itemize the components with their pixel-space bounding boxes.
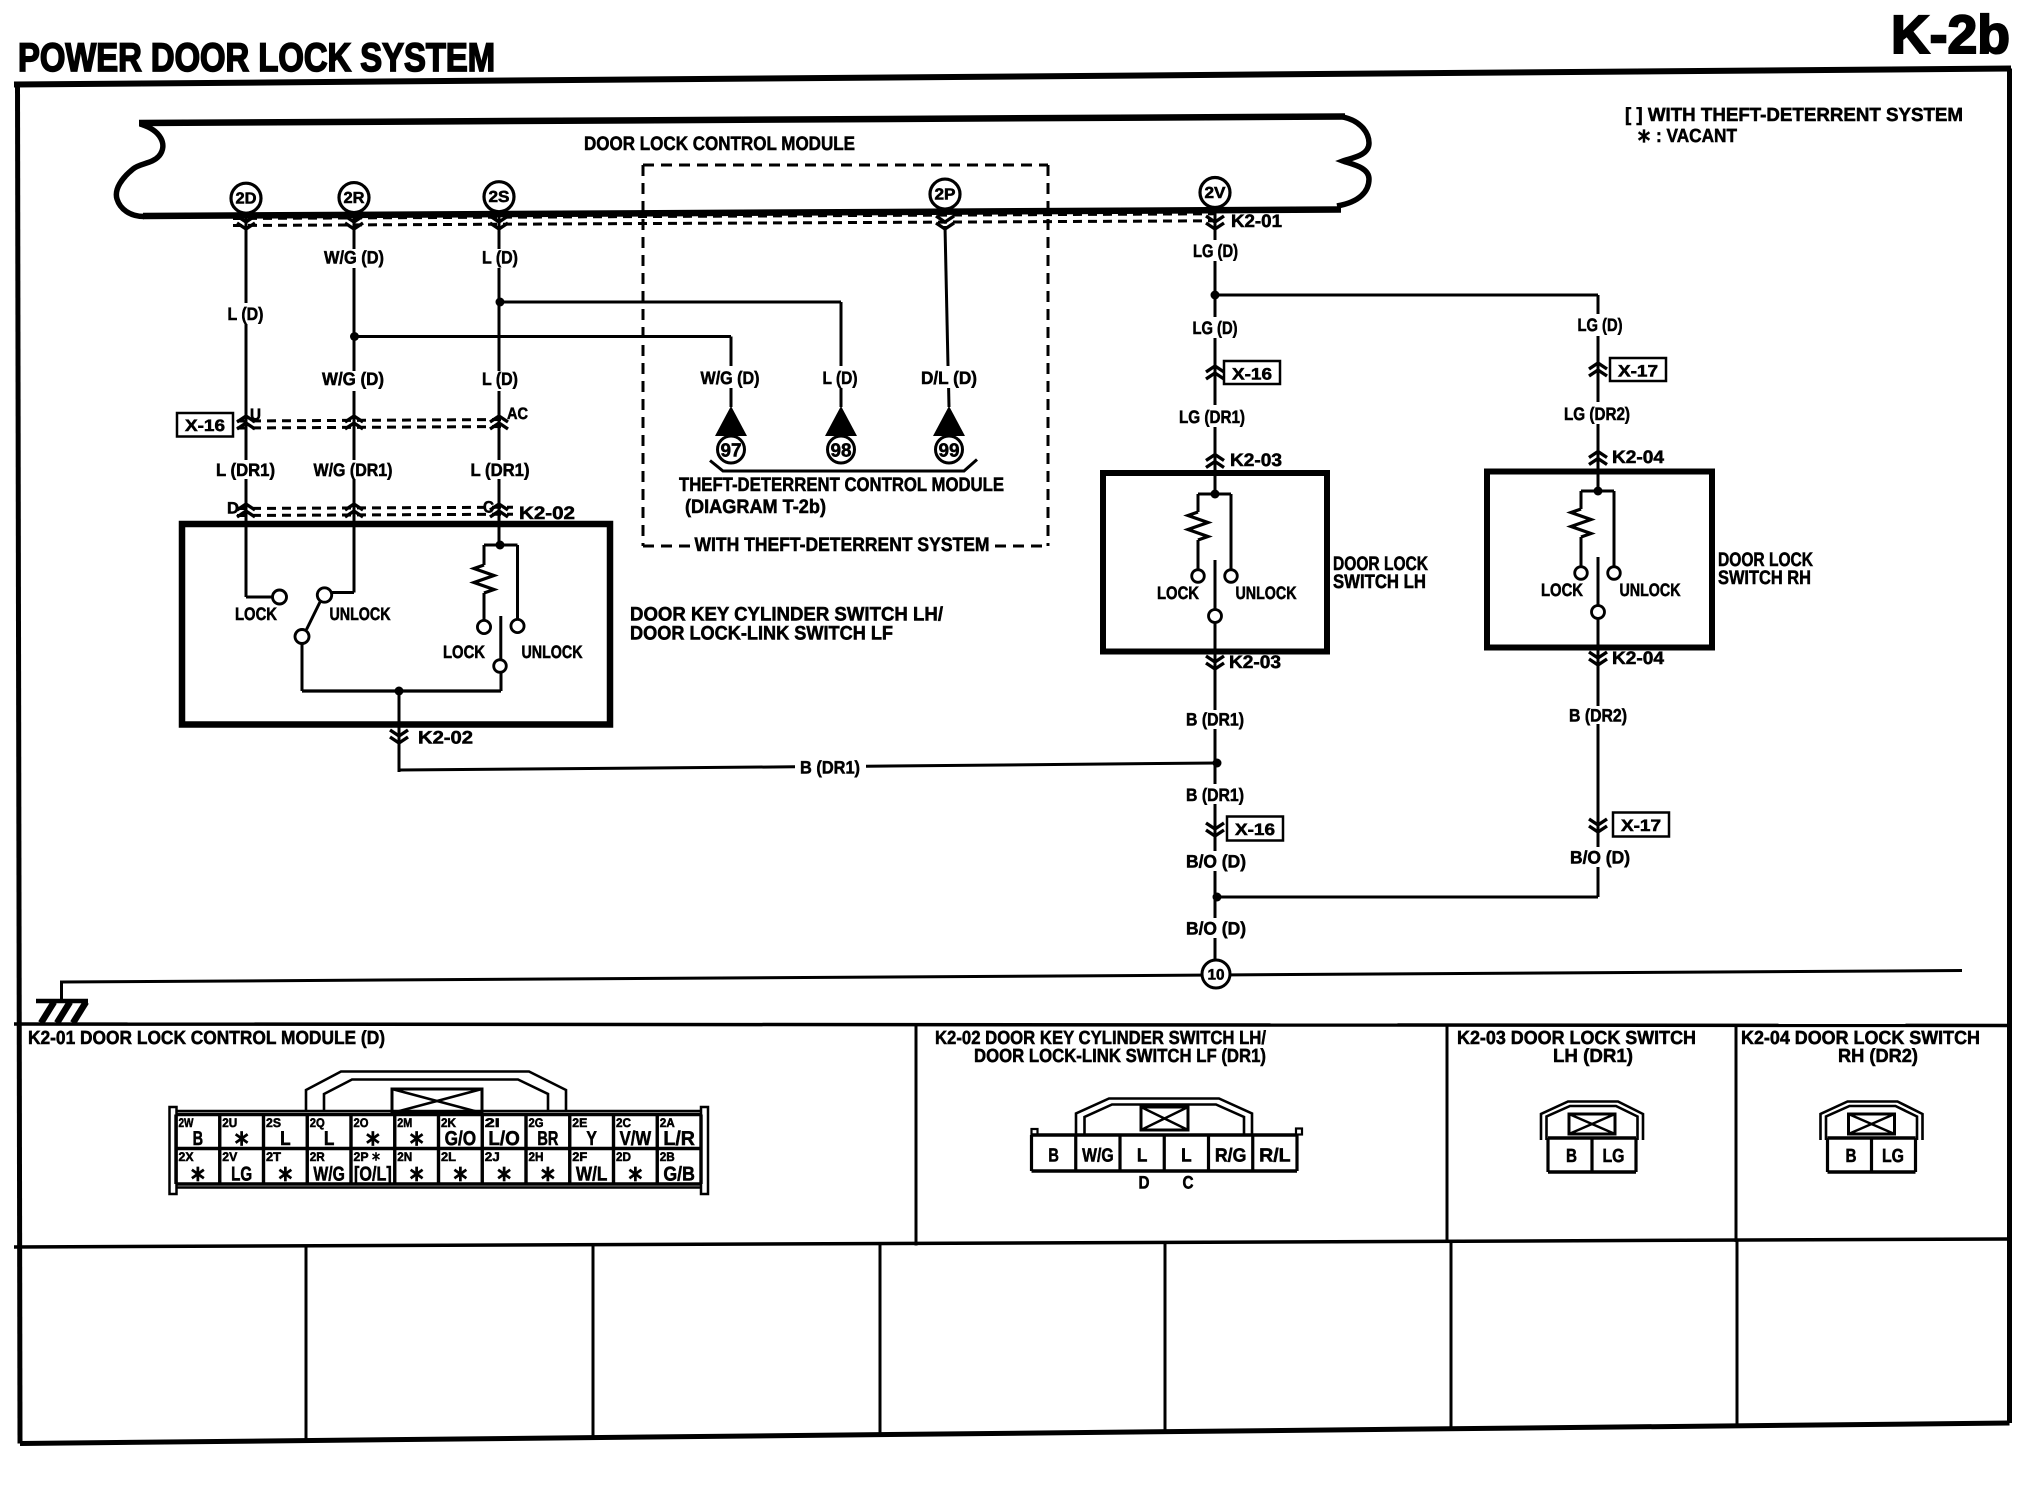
- svg-text:2B: 2B: [660, 1150, 675, 1164]
- svg-text:B: B: [1566, 1146, 1577, 1167]
- svg-text:X-17: X-17: [1621, 817, 1661, 835]
- svg-text:97: 97: [721, 441, 742, 462]
- svg-text:L (D): L (D): [482, 248, 518, 268]
- svg-text:: VACANT: : VACANT: [1656, 126, 1737, 147]
- svg-text:B/O (D): B/O (D): [1186, 919, 1246, 939]
- svg-text:[ ] WITH THEFT-DETERRENT SYSTE: [ ] WITH THEFT-DETERRENT SYSTEM: [1625, 105, 1963, 126]
- svg-text:C: C: [1183, 1173, 1194, 1193]
- svg-text:SWITCH RH: SWITCH RH: [1718, 567, 1811, 589]
- svg-text:2D: 2D: [616, 1150, 631, 1164]
- svg-text:2R: 2R: [344, 190, 365, 207]
- svg-text:K2-02: K2-02: [519, 503, 575, 523]
- svg-text:POWER DOOR LOCK SYSTEM: POWER DOOR LOCK SYSTEM: [18, 36, 495, 80]
- svg-text:L/R: L/R: [663, 1128, 695, 1150]
- svg-text:10: 10: [1208, 967, 1225, 984]
- svg-text:DOOR LOCK-LINK SWITCH LF (DR1): DOOR LOCK-LINK SWITCH LF (DR1): [974, 1046, 1266, 1067]
- svg-text:G/O: G/O: [445, 1128, 477, 1150]
- svg-text:V/W: V/W: [620, 1128, 652, 1150]
- svg-text:W/G: W/G: [313, 1164, 345, 1186]
- svg-text:LG (D): LG (D): [1193, 241, 1238, 261]
- svg-text:2J: 2J: [485, 1150, 500, 1164]
- svg-text:WITH THEFT-DETERRENT SYSTEM: WITH THEFT-DETERRENT SYSTEM: [695, 534, 990, 556]
- svg-text:2P: 2P: [935, 187, 956, 204]
- svg-text:DOOR LOCK-LINK SWITCH LF: DOOR LOCK-LINK SWITCH LF: [630, 623, 893, 645]
- svg-text:R/L: R/L: [1259, 1146, 1291, 1167]
- svg-text:2O: 2O: [354, 1116, 369, 1130]
- svg-text:W/L: W/L: [576, 1164, 608, 1186]
- svg-text:B: B: [1048, 1146, 1059, 1167]
- svg-text:LG (D): LG (D): [1578, 315, 1623, 335]
- svg-text:D: D: [1139, 1173, 1150, 1193]
- svg-text:K2-04: K2-04: [1612, 447, 1664, 467]
- svg-text:B (DR1): B (DR1): [1186, 710, 1244, 730]
- svg-text:LOCK: LOCK: [1541, 580, 1583, 600]
- svg-text:L (D): L (D): [228, 304, 264, 324]
- svg-text:G/B: G/B: [663, 1164, 695, 1186]
- svg-text:K-2b: K-2b: [1891, 5, 2010, 65]
- svg-text:LG (DR2): LG (DR2): [1564, 404, 1630, 424]
- svg-text:LG (DR1): LG (DR1): [1179, 407, 1245, 427]
- svg-text:2L: 2L: [441, 1150, 456, 1164]
- svg-text:K2-04: K2-04: [1612, 648, 1664, 668]
- svg-text:2N: 2N: [397, 1150, 412, 1164]
- svg-text:L: L: [1137, 1146, 1148, 1167]
- svg-text:2P: 2P: [354, 1150, 369, 1164]
- svg-text:B (DR1): B (DR1): [1186, 785, 1244, 805]
- svg-text:99: 99: [939, 441, 960, 462]
- svg-text:B/O (D): B/O (D): [1186, 852, 1246, 872]
- svg-text:B/O (D): B/O (D): [1570, 848, 1630, 868]
- svg-text:X-16: X-16: [185, 417, 225, 435]
- svg-text:LG: LG: [1882, 1146, 1904, 1167]
- svg-text:W/G (D): W/G (D): [322, 369, 384, 389]
- svg-text:2H: 2H: [529, 1150, 544, 1164]
- svg-text:2Q: 2Q: [310, 1116, 325, 1130]
- svg-text:W/G (D): W/G (D): [701, 368, 760, 388]
- svg-text:SWITCH LH: SWITCH LH: [1333, 571, 1426, 593]
- svg-text:C: C: [483, 499, 494, 517]
- svg-text:K2-01 DOOR LOCK CONTROL MODULE: K2-01 DOOR LOCK CONTROL MODULE (D): [28, 1028, 385, 1049]
- svg-text:UNLOCK: UNLOCK: [1236, 583, 1297, 603]
- svg-text:L: L: [280, 1128, 291, 1150]
- svg-text:BR: BR: [537, 1128, 558, 1150]
- svg-text:98: 98: [831, 441, 852, 462]
- svg-text:THEFT-DETERRENT CONTROL MODULE: THEFT-DETERRENT CONTROL MODULE: [679, 474, 1004, 496]
- svg-text:2W: 2W: [179, 1116, 194, 1130]
- svg-text:RH (DR2): RH (DR2): [1838, 1046, 1918, 1067]
- svg-text:2V: 2V: [222, 1150, 238, 1164]
- svg-text:(DIAGRAM T-2b): (DIAGRAM T-2b): [685, 496, 826, 518]
- svg-text:D/L (D): D/L (D): [921, 368, 977, 388]
- svg-text:LG: LG: [1603, 1146, 1625, 1167]
- svg-text:LOCK: LOCK: [443, 642, 485, 662]
- svg-text:L (D): L (D): [823, 368, 858, 388]
- svg-text:2R: 2R: [310, 1150, 325, 1164]
- svg-text:2E: 2E: [572, 1116, 587, 1130]
- svg-text:2X: 2X: [179, 1150, 195, 1164]
- svg-text:R/G: R/G: [1215, 1146, 1247, 1167]
- svg-text:LH (DR1): LH (DR1): [1553, 1046, 1633, 1067]
- svg-text:X-16: X-16: [1232, 366, 1272, 384]
- svg-text:LG (D): LG (D): [1193, 318, 1238, 338]
- svg-text:X-17: X-17: [1618, 363, 1658, 381]
- svg-text:L: L: [324, 1128, 335, 1150]
- svg-text:K2-02: K2-02: [418, 728, 473, 748]
- svg-text:L (DR1): L (DR1): [471, 460, 530, 480]
- svg-text:2D: 2D: [236, 191, 257, 208]
- svg-text:K2-03: K2-03: [1229, 652, 1281, 672]
- svg-text:DOOR LOCK CONTROL MODULE: DOOR LOCK CONTROL MODULE: [584, 133, 855, 155]
- svg-text:X-16: X-16: [1235, 821, 1275, 839]
- svg-text:2F: 2F: [572, 1150, 587, 1164]
- svg-text:UNLOCK: UNLOCK: [522, 642, 583, 662]
- svg-text:UNLOCK: UNLOCK: [330, 604, 391, 624]
- svg-text:2V: 2V: [1205, 185, 1226, 202]
- svg-text:B: B: [1846, 1146, 1857, 1167]
- svg-text:U: U: [250, 406, 261, 424]
- svg-text:K2-03: K2-03: [1230, 450, 1282, 470]
- svg-text:B (DR1): B (DR1): [800, 758, 860, 778]
- svg-text:L (DR1): L (DR1): [216, 460, 275, 480]
- svg-text:AC: AC: [507, 405, 528, 423]
- svg-text:LOCK: LOCK: [1157, 583, 1199, 603]
- svg-text:Y: Y: [586, 1128, 597, 1150]
- svg-text:2U: 2U: [222, 1116, 237, 1130]
- svg-text:W/G (DR1): W/G (DR1): [314, 460, 393, 480]
- svg-text:L: L: [1181, 1146, 1192, 1167]
- svg-text:2S: 2S: [489, 189, 510, 206]
- svg-text:B: B: [193, 1128, 204, 1150]
- svg-text:D: D: [227, 500, 239, 518]
- svg-text:W/G: W/G: [1082, 1146, 1114, 1167]
- svg-text:K2-01: K2-01: [1231, 211, 1282, 231]
- svg-text:LOCK: LOCK: [235, 604, 277, 624]
- svg-text:2S: 2S: [266, 1116, 281, 1130]
- svg-text:B (DR2): B (DR2): [1569, 706, 1627, 726]
- svg-text:LG: LG: [231, 1164, 252, 1186]
- svg-text:W/G (D): W/G (D): [324, 248, 384, 268]
- svg-text:[O/L]: [O/L]: [354, 1164, 392, 1186]
- svg-text:L/O: L/O: [488, 1128, 520, 1150]
- svg-text:UNLOCK: UNLOCK: [1620, 580, 1681, 600]
- svg-text:2T: 2T: [266, 1150, 281, 1164]
- svg-text:2M: 2M: [397, 1116, 412, 1130]
- svg-text:L (D): L (D): [482, 369, 518, 389]
